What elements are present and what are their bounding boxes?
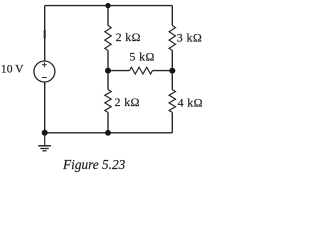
svg-text:Figure 5.23: Figure 5.23 <box>62 157 126 172</box>
svg-text:4 kΩ: 4 kΩ <box>178 96 203 110</box>
svg-text:10 V: 10 V <box>1 63 24 76</box>
svg-text:2 kΩ: 2 kΩ <box>115 95 140 109</box>
svg-text:2 kΩ: 2 kΩ <box>116 30 141 44</box>
svg-text:5 kΩ: 5 kΩ <box>129 49 154 63</box>
svg-text:3 kΩ: 3 kΩ <box>177 30 202 44</box>
